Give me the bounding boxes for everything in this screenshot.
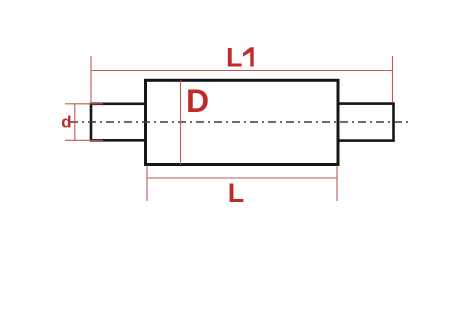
dimension line D (vertical inside body) [180, 80, 182, 164]
extension line L left [146, 166, 148, 202]
left stub shaft [91, 104, 146, 141]
svg-text:L: L [228, 178, 245, 208]
svg-text:L: L [226, 43, 243, 73]
right stub shaft [338, 104, 394, 141]
main body rectangle [146, 80, 339, 164]
label L1 (1 glyph drawn as path, no foot serif) [243, 47, 254, 66]
dimension line L1 [91, 70, 393, 72]
extension line d bottom [65, 139, 103, 141]
extension line L right [336, 166, 338, 202]
extension line L1 left [90, 56, 92, 104]
extension line L1 right [392, 56, 394, 102]
centerline (dash-dot axis) [70, 121, 412, 123]
dimension line L [147, 177, 337, 179]
dimension line d [74, 104, 76, 141]
extension line d top [65, 103, 103, 105]
svg-text:d: d [61, 113, 71, 132]
svg-text:D: D [186, 83, 209, 119]
